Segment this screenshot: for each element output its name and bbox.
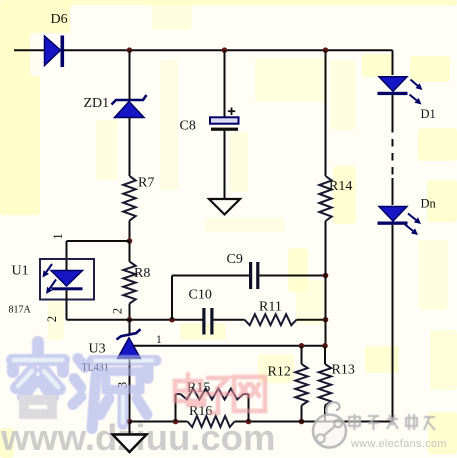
capacitor C8 xyxy=(210,108,239,131)
LED Dn xyxy=(378,207,408,225)
label Dn xyxy=(421,197,437,211)
node mid row / R14 column xyxy=(323,317,329,323)
svg-text:D1: D1 xyxy=(421,107,436,121)
wire C9 node to mid node xyxy=(325,276,327,320)
wire U1 pin2 vertical xyxy=(66,290,68,319)
diode D6 xyxy=(45,36,65,68)
wire C10 to R11 xyxy=(214,319,245,321)
svg-text:U3: U3 xyxy=(89,342,106,357)
label R15 xyxy=(187,381,210,396)
node ref / R13 / R14 column xyxy=(322,343,328,349)
label R7 xyxy=(138,176,154,191)
pin 1 label (U1) xyxy=(51,233,65,239)
wire R13 bottom lead xyxy=(324,406,326,422)
wire LED column top xyxy=(392,50,394,75)
wire C9 left xyxy=(172,275,250,277)
label ZD1 xyxy=(84,96,110,111)
node U3 anode / bottom rail xyxy=(127,419,133,425)
zener diode ZD1 xyxy=(112,95,147,118)
svg-text:C8: C8 xyxy=(180,119,196,134)
wire R14 to C9 node xyxy=(325,221,327,276)
pin 2 label (U3 cathode) xyxy=(110,308,124,314)
svg-text:www.elecfans.com: www.elecfans.com xyxy=(350,438,447,450)
node R8 / U1 pin2 / U3 cathode xyxy=(127,317,133,323)
resistor R7 xyxy=(123,176,135,221)
label C8 xyxy=(180,119,196,134)
ground (U3 anode) xyxy=(113,422,147,453)
wire C8 to ground xyxy=(224,131,226,199)
node R12 / bottom rail xyxy=(299,419,305,425)
wire below D1 xyxy=(392,95,394,125)
wire R15 right stub xyxy=(248,394,250,422)
wire mid node to ref row xyxy=(325,320,327,346)
node R15 left stub xyxy=(173,419,179,425)
node R7 / R8 / U1 pin1 xyxy=(127,238,133,244)
svg-text:R7: R7 xyxy=(138,176,154,191)
svg-text:R13: R13 xyxy=(332,363,355,378)
label R14 xyxy=(329,179,352,194)
watermark dian-zi-wang char dian xyxy=(175,374,204,405)
ground (C8) xyxy=(209,199,240,215)
svg-text:C9: C9 xyxy=(227,252,243,267)
node top-rail / C8 column xyxy=(222,47,228,53)
wire R8 to mid node xyxy=(129,304,131,320)
svg-text:Dn: Dn xyxy=(421,197,437,211)
label C9 xyxy=(227,252,243,267)
wire U1 pin1 vertical xyxy=(66,241,68,271)
svg-text:2: 2 xyxy=(110,308,124,314)
wire above Dn xyxy=(392,178,394,205)
resistor R16 xyxy=(188,416,235,427)
wire U3 anode down xyxy=(129,359,131,422)
wire R12 top lead xyxy=(301,346,303,364)
svg-text:D6: D6 xyxy=(51,12,68,27)
wire ZD1 to R7 xyxy=(129,118,131,177)
optocoupler U1 box xyxy=(40,259,94,300)
svg-text:C10: C10 xyxy=(189,288,212,303)
wire top rail to R14 xyxy=(325,50,327,176)
pin 1 label (U3 ref) xyxy=(156,334,162,346)
svg-text:R11: R11 xyxy=(259,300,282,315)
label U1 xyxy=(12,264,29,279)
node top-rail / ZD1 column xyxy=(127,47,133,53)
watermark dian-zi-wang char zi xyxy=(205,378,231,413)
wire R12 bottom lead xyxy=(301,406,303,422)
capacitor C9 xyxy=(249,262,259,289)
wire U1 pin1 horizontal xyxy=(67,240,130,242)
resistor R8 xyxy=(123,262,135,304)
wire U1 pin2 to C10 xyxy=(67,319,204,321)
wire R13 top lead xyxy=(324,346,326,364)
wire dashed LED string continuation xyxy=(392,125,394,178)
watermark dian-zi-wang char wang xyxy=(234,377,265,411)
Dn emission arrows xyxy=(405,214,421,236)
wire R15 left stub xyxy=(175,394,177,422)
wire top rail to C8 xyxy=(224,50,226,117)
resistor R11 xyxy=(245,314,297,325)
wire mid node to U3 xyxy=(129,320,131,335)
ground (U3 anode, redrawn over watermark) xyxy=(113,435,147,453)
watermark elecfans logo xyxy=(313,402,346,447)
wire C9 drop xyxy=(171,276,173,320)
node ref / R12 xyxy=(299,343,305,349)
label D1 xyxy=(421,107,436,121)
wire R7 to node xyxy=(129,221,131,242)
label C10 xyxy=(189,288,212,303)
svg-text:U1: U1 xyxy=(12,264,29,279)
shunt regulator U3 cathode bar xyxy=(117,329,141,339)
node top-rail / R14 column xyxy=(323,47,329,53)
wire bottom rail left xyxy=(130,421,188,423)
node R15 right stub xyxy=(246,419,252,425)
wire U3 ref xyxy=(134,345,325,347)
watermark rong-yuan char 2 xyxy=(73,359,156,429)
label R11 xyxy=(259,300,282,315)
label R16 xyxy=(189,404,212,419)
wire top rail left lead xyxy=(14,49,45,51)
label TL431 xyxy=(82,363,109,374)
wire bottom rail right xyxy=(235,421,393,423)
label 817A xyxy=(9,305,32,316)
capacitor C10 xyxy=(202,308,213,335)
watermark rong-yuan char 1 xyxy=(12,342,64,414)
svg-text:1: 1 xyxy=(156,334,162,346)
pin 2 label (U1) xyxy=(45,316,59,322)
svg-text:1: 1 xyxy=(51,233,65,239)
node mid row / C9 drop xyxy=(169,317,175,323)
U3 TL431 triangle xyxy=(118,338,141,359)
U1 emission arrows xyxy=(43,264,57,294)
svg-text:817A: 817A xyxy=(9,305,32,316)
wire LED column bottom xyxy=(392,225,394,422)
svg-text:ZD1: ZD1 xyxy=(84,96,110,111)
label D6 xyxy=(51,12,68,27)
wire node to R8 xyxy=(129,241,131,262)
U1 LED xyxy=(51,271,83,291)
resistor R12 xyxy=(295,364,307,406)
svg-text:R14: R14 xyxy=(329,179,352,194)
svg-text:R8: R8 xyxy=(134,266,150,281)
node C9 / R14 column xyxy=(323,273,329,279)
label R8 xyxy=(134,266,150,281)
wire C9 right xyxy=(260,275,326,277)
label R12 xyxy=(268,365,291,380)
pin 3 label (U3 anode) xyxy=(115,382,129,388)
label R13 xyxy=(332,363,355,378)
D1 emission arrows xyxy=(410,80,423,105)
resistor R15 xyxy=(176,389,249,400)
resistor R14 xyxy=(319,176,331,221)
wire top rail xyxy=(64,49,393,51)
label U3 xyxy=(89,342,106,357)
resistor R13 xyxy=(319,364,331,406)
svg-text:R12: R12 xyxy=(268,365,291,380)
svg-text:2: 2 xyxy=(45,316,59,322)
LED D1 xyxy=(378,77,408,95)
watermark elecfans characters xyxy=(349,414,435,430)
wire top rail to ZD1 xyxy=(129,50,131,99)
wire R11 to R14 column xyxy=(297,319,326,321)
